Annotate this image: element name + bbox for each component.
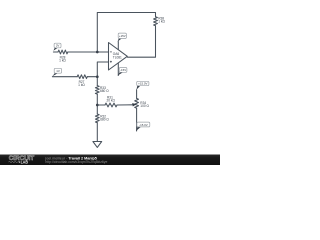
svg-text:1 kΩ: 1 kΩ: [78, 83, 85, 87]
potentiometer R34: [135, 98, 139, 108]
wire plus node down: [96, 77, 98, 86]
label R33 value: [100, 86, 109, 93]
svg-text:+15.0V: +15.0V: [138, 82, 147, 86]
op-amp plus sign: [110, 61, 112, 63]
svg-text:680 Ω: 680 Ω: [100, 118, 109, 122]
svg-text:2V: 2V: [56, 44, 60, 48]
wire input node to op-amp: [68, 51, 109, 53]
op-amp label OA6 TL081: [113, 52, 122, 59]
svg-text:TL081: TL081: [113, 55, 122, 59]
wire R27 to plus node: [87, 76, 97, 78]
resistor R28: [58, 50, 68, 54]
resistor R32: [95, 114, 99, 123]
flag -15.0V: [136, 122, 150, 131]
op-amp U1 triangle: [109, 43, 128, 71]
flag +15V: [118, 33, 127, 42]
svg-text:1V: 1V: [56, 69, 60, 73]
svg-text:1 kΩ: 1 kΩ: [59, 59, 66, 63]
svg-text:20 kΩ: 20 kΩ: [107, 98, 116, 102]
wire feedback top: [97, 13, 155, 53]
svg-text:LAB: LAB: [21, 159, 29, 164]
wire R33 to mid node: [96, 94, 98, 105]
flag +15.0V: [136, 81, 149, 90]
wire plus node to op-amp: [97, 62, 108, 77]
svg-text:http://circuitlab.com/c3xqm7fu: http://circuitlab.com/c3xqm7fu2vq8ktz6ye: [45, 160, 107, 164]
wire flag V2 to R27: [52, 76, 77, 78]
op-amp minus sign: [110, 51, 112, 53]
junction node plus input: [96, 75, 99, 78]
svg-text:+15V: +15V: [119, 34, 126, 38]
wire R38 to output: [128, 26, 156, 57]
resistor R38: [154, 17, 158, 26]
flag V1 2V: [53, 43, 61, 51]
label R28 value: [59, 56, 66, 63]
label R31 value: [107, 95, 116, 102]
label R34 value: [140, 101, 149, 108]
op-amp V+ stub: [117, 42, 119, 50]
svg-text:100 Ω: 100 Ω: [140, 104, 149, 108]
wire R31 to wiper: [117, 104, 133, 106]
label R27 value: [78, 80, 85, 87]
footer title line: [44, 156, 107, 163]
junction node divider mid: [96, 104, 99, 107]
svg-text:1 kΩ: 1 kΩ: [158, 20, 165, 24]
wire flag V1 stub: [53, 51, 58, 53]
pot wiper arrow: [132, 103, 136, 107]
svg-text:-15.0V: -15.0V: [139, 123, 148, 127]
label R32 value: [100, 114, 109, 121]
wire R32 to ground: [96, 123, 98, 142]
op-amp V- stub: [117, 63, 119, 75]
wire mid node to R31: [97, 104, 105, 106]
wire mid node to R32: [96, 105, 98, 114]
flag -15V: [118, 68, 127, 76]
svg-text:-15V: -15V: [120, 68, 126, 72]
junction node minus input: [96, 51, 99, 54]
resistor R27: [77, 75, 87, 79]
wire pot bottom: [136, 108, 138, 131]
resistor R33: [95, 86, 99, 95]
wire pot top: [136, 90, 138, 99]
footer bar: [0, 155, 220, 166]
label R38 value: [158, 17, 165, 24]
CircuitLab logo: [8, 156, 34, 165]
resistor R31: [105, 103, 117, 107]
svg-text:680 Ω: 680 Ω: [100, 89, 109, 93]
flag V2 1V: [52, 68, 61, 76]
ground: [93, 142, 102, 148]
